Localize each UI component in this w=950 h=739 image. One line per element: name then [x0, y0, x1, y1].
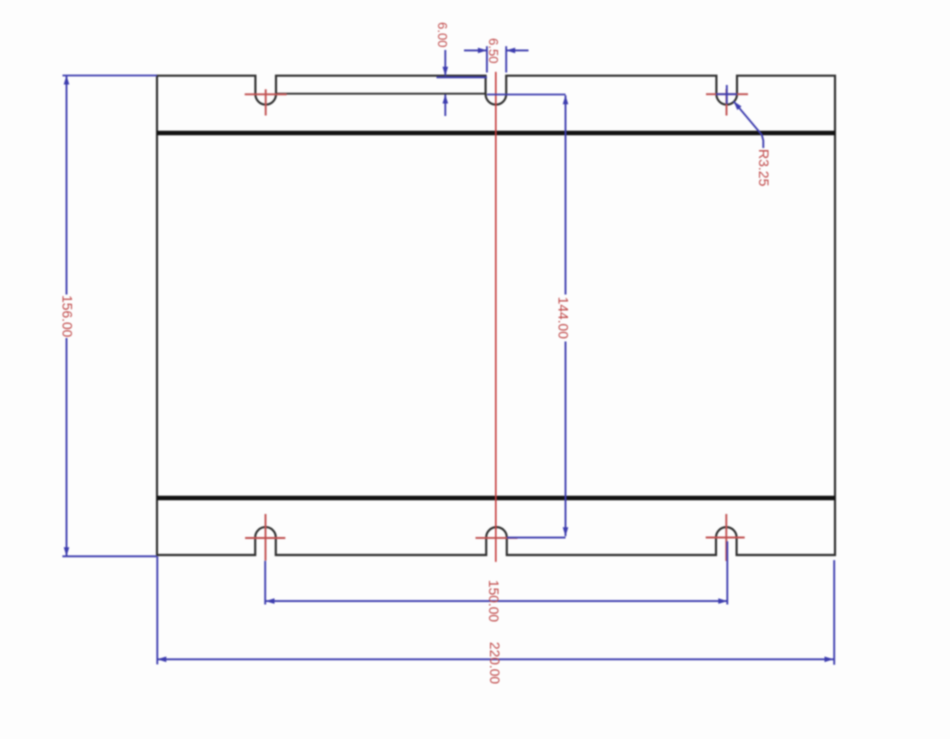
center mark crosshair, bottom-left notch — [245, 514, 285, 561]
svg-text:6.00: 6.00 — [435, 22, 450, 47]
dimension 144.00 middle — [487, 95, 566, 538]
radius leader R3.25 — [734, 101, 764, 148]
recess groove line between notch 1 and notch 2 — [276, 93, 486, 95]
dimension 6.50 top middle notch width — [464, 46, 529, 72]
blue center cross overlay, top-right notch — [716, 85, 737, 104]
svg-text:220.00: 220.00 — [487, 642, 502, 685]
svg-text:150.00: 150.00 — [486, 580, 501, 623]
center mark crosshair, top-right notch — [706, 89, 748, 116]
red vertical centerline through middle notches — [495, 72, 497, 562]
center mark crosshair, top-left notch — [245, 89, 287, 115]
svg-text:156.00: 156.00 — [59, 295, 74, 338]
center mark crosshair, bottom-right notch — [706, 514, 745, 561]
center mark crosshair, bottom-middle notch — [476, 537, 518, 539]
plate outline with six semicircular notches — [157, 76, 835, 555]
upper thick rail line — [157, 131, 835, 135]
dimension 6.00 top — [437, 50, 487, 116]
svg-text:R3.25: R3.25 — [756, 149, 772, 187]
dimension 220.00 bottom — [157, 556, 834, 664]
svg-text:144.00: 144.00 — [556, 297, 571, 340]
dimension 156.00 left side — [62, 76, 157, 557]
svg-text:6.50: 6.50 — [486, 38, 501, 63]
lower thick rail line — [157, 496, 835, 500]
dimension 150.00 bottom — [265, 541, 727, 604]
